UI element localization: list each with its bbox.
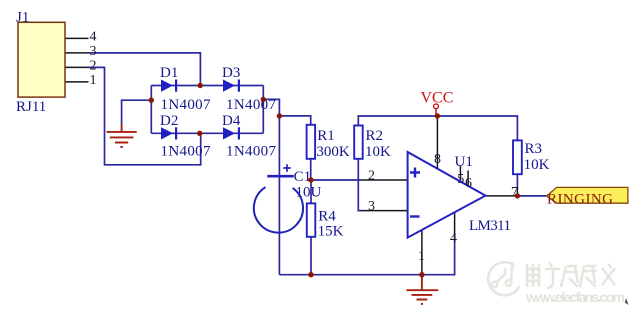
svg-text:3: 3: [90, 44, 97, 59]
svg-text:RINGING: RINGING: [547, 192, 613, 208]
svg-text:D3: D3: [222, 65, 240, 81]
svg-text:1: 1: [90, 73, 97, 88]
svg-text:3: 3: [368, 199, 375, 214]
svg-text:15K: 15K: [318, 224, 344, 240]
svg-text:1N4007: 1N4007: [161, 97, 212, 113]
svg-text:R3: R3: [525, 141, 543, 157]
svg-text:5: 5: [457, 172, 464, 187]
svg-text:1: 1: [418, 249, 425, 264]
svg-text:R4: R4: [318, 209, 336, 225]
svg-text:D2: D2: [160, 113, 178, 129]
svg-text:4: 4: [450, 231, 457, 246]
svg-text:2: 2: [90, 59, 97, 74]
svg-text:10K: 10K: [524, 157, 550, 173]
svg-text:10K: 10K: [365, 144, 391, 160]
svg-text:1N4007: 1N4007: [226, 144, 277, 160]
svg-text:6: 6: [465, 176, 472, 191]
svg-text:8: 8: [434, 152, 441, 167]
svg-text:2: 2: [368, 169, 375, 184]
svg-text:R2: R2: [366, 128, 384, 144]
svg-text:J1: J1: [16, 10, 29, 26]
svg-text:1N4007: 1N4007: [226, 97, 277, 113]
svg-text:C1: C1: [294, 169, 312, 185]
svg-text:R1: R1: [317, 128, 335, 144]
svg-text:300K: 300K: [316, 144, 350, 160]
svg-text:RJ11: RJ11: [16, 99, 46, 115]
svg-text:10U: 10U: [296, 185, 322, 201]
svg-text:LM311: LM311: [469, 218, 511, 234]
svg-text:D1: D1: [160, 65, 178, 81]
svg-text:U1: U1: [455, 154, 473, 170]
svg-text:1N4007: 1N4007: [161, 144, 212, 160]
svg-text:www.elecfans.com: www.elecfans.com: [525, 289, 625, 305]
svg-text:4: 4: [90, 30, 97, 45]
svg-text:D4: D4: [222, 113, 241, 129]
